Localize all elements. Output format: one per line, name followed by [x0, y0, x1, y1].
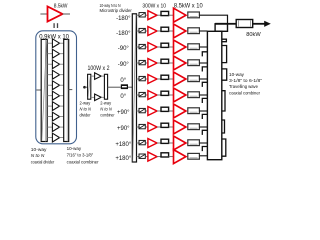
wire: row 5 divider tap	[137, 78, 140, 80]
wire: row 6 to combiner	[199, 94, 207, 96]
wire	[157, 94, 161, 96]
wire: row 1 to combiner top	[199, 15, 227, 24]
wire	[169, 30, 174, 32]
op-amp: 0.9kW module #10	[52, 133, 59, 142]
op-amp: 0.9kW module #6	[52, 91, 59, 100]
wire	[169, 94, 174, 96]
svg-text:coaxial combiner: coaxial combiner	[229, 90, 260, 95]
wire: box row 8 in	[47, 116, 52, 118]
svg-text:-180°: -180°	[116, 16, 131, 22]
op-amp: 0.9kW module #4	[52, 70, 59, 79]
svg-text:2-way: 2-way	[80, 101, 92, 106]
wire: driver amp input	[40, 13, 47, 15]
op-amp: 100W amplifier	[95, 73, 102, 80]
combiner: step section 6	[222, 139, 226, 156]
op-amp: 0.9kW module #7	[52, 102, 59, 111]
op-amp: 0.9kW module #8	[52, 112, 59, 121]
wire: box row 2 out	[59, 53, 63, 55]
wire: output arrow 80kW	[253, 23, 265, 25]
combiner: step section 2	[222, 46, 227, 63]
wire: row 5 to combiner	[199, 78, 207, 80]
wire	[145, 94, 148, 96]
connector: row 8 phase trim	[139, 124, 145, 128]
svg-text:N to N: N to N	[80, 106, 92, 111]
combiner: step section 4	[222, 91, 225, 111]
connector: row 6 phase trim	[139, 92, 145, 96]
svg-text:combiner: combiner	[100, 112, 115, 117]
op-amp: 0.9kW module #9	[52, 123, 59, 132]
combiner: left tap stub 2	[202, 67, 207, 72]
op-amp: row 3 300W driver	[148, 43, 157, 52]
connector: row 2 phase trim	[139, 28, 145, 32]
wire: row 7 divider tap	[137, 110, 140, 112]
svg-text:+90°: +90°	[117, 126, 130, 132]
svg-text:0°: 0°	[120, 94, 126, 100]
wire: row 9 divider tap	[137, 142, 140, 144]
combiner: main travelling-wave column	[207, 31, 221, 159]
connector: row 2 output coupler	[188, 28, 200, 34]
wire: box row 1 in	[47, 42, 52, 44]
equivalence marks	[53, 23, 55, 28]
wire: driver amp output	[63, 13, 71, 15]
wire: row 9 to combiner	[199, 142, 207, 144]
wire	[169, 62, 174, 64]
wire	[145, 14, 148, 16]
wire	[157, 126, 161, 128]
wire: box row 5 out	[59, 84, 63, 86]
svg-text:8.5kW: 8.5kW	[54, 4, 68, 10]
combiner: top feed section	[215, 24, 227, 32]
op-amp: row 5 8.5kW final amplifier	[174, 72, 186, 86]
op-amp: row 6 300W driver	[148, 91, 157, 100]
op-amp: row 1 300W driver	[148, 11, 157, 20]
connector: row 5 interstage	[161, 75, 169, 79]
wire	[145, 78, 148, 80]
divider bar: 10-way coaxial divider	[41, 39, 47, 141]
wire	[157, 30, 161, 32]
op-amp: row 7 8.5kW final amplifier	[174, 104, 186, 118]
wire	[169, 126, 174, 128]
wire: module input feed	[36, 89, 41, 91]
op-amp: row 2 300W driver	[148, 27, 157, 36]
wire	[169, 46, 174, 48]
connector: row 9 output coupler	[188, 140, 200, 146]
wire: box row 3 out	[59, 63, 63, 65]
wire	[145, 156, 148, 158]
wire	[157, 78, 161, 80]
connector: row 8 output coupler	[188, 124, 200, 130]
svg-text:100W x 2: 100W x 2	[87, 66, 110, 72]
connector: row 4 interstage	[161, 59, 169, 63]
wire: combiner output bus	[228, 23, 237, 25]
wire: box row 1 out	[59, 42, 63, 44]
connector: row 4 output coupler	[188, 60, 200, 66]
wire: row 4 divider tap	[137, 62, 140, 64]
combiner: left tap stub 4	[202, 98, 207, 103]
combiner: step section 5	[222, 120, 225, 133]
connector: row 3 phase trim	[139, 44, 145, 48]
wire: row 8 divider tap	[137, 126, 140, 128]
op-amp: row 10 300W driver	[148, 152, 157, 161]
wire: 2way row out	[101, 75, 104, 77]
svg-text:300W x 10: 300W x 10	[142, 3, 166, 9]
op-amp: row 4 8.5kW final amplifier	[174, 56, 186, 70]
combiner bar: 2-way N to N combiner	[104, 74, 107, 99]
wire: row 3 to combiner	[199, 46, 207, 48]
combiner: left tap stub 6	[202, 130, 207, 135]
wire	[157, 142, 161, 144]
wire	[145, 30, 148, 32]
wire: 2way row	[91, 75, 95, 77]
wire: box row 3 in	[47, 63, 52, 65]
wire	[145, 46, 148, 48]
connector: row 7 interstage	[161, 107, 169, 111]
op-amp: 0.9kW module #5	[52, 81, 59, 90]
wire: row 1 divider tap	[137, 14, 140, 16]
op-amp: row 8 8.5kW final amplifier	[174, 120, 186, 134]
module box 0.9kW x 10	[36, 31, 77, 144]
combiner: left tap stub 3	[202, 82, 207, 87]
svg-text:10-way: 10-way	[31, 147, 48, 152]
connector: row 9 interstage	[161, 139, 169, 143]
svg-text:coaxial divider: coaxial divider	[31, 159, 55, 164]
connector: row 1 interstage	[161, 11, 169, 15]
svg-text:10-way: 10-way	[67, 146, 82, 151]
wire: 2-way output to microstrip divider	[108, 86, 121, 88]
wire	[169, 156, 174, 158]
svg-text:0°: 0°	[120, 78, 126, 84]
wire: row 7 to combiner	[199, 110, 207, 112]
svg-text:-90°: -90°	[118, 62, 130, 68]
op-amp: 100W amplifier	[95, 94, 102, 101]
wire: box row 9 out	[59, 126, 63, 128]
connector: row 9 phase trim	[139, 140, 145, 144]
op-amp: row 1 8.5kW final amplifier	[174, 8, 186, 22]
op-amp: row 4 300W driver	[148, 59, 157, 68]
svg-text:coaxial combiner: coaxial combiner	[67, 159, 100, 164]
op-amp: 0.9kW module #1	[52, 39, 59, 48]
divider bar: 10-way microstrip divider	[132, 14, 136, 162]
combiner: left tap stub 5	[202, 114, 207, 119]
wire: box row 4 in	[47, 74, 52, 76]
op-amp: 8.5kW driver amplifier symbol	[48, 7, 63, 22]
wire	[157, 62, 161, 64]
connector: row 10 output coupler	[188, 153, 200, 159]
op-amp: 0.9kW module #3	[52, 60, 59, 69]
connector: row 3 output coupler	[188, 44, 200, 50]
connector: row 4 phase trim	[139, 60, 145, 64]
wire	[145, 126, 148, 128]
wire	[157, 46, 161, 48]
wire: box row 7 out	[59, 105, 63, 107]
connector: row 1 output coupler	[188, 12, 200, 18]
combiner: step section 3	[222, 69, 227, 80]
connector: row 7 phase trim	[139, 108, 145, 112]
connector: row 8 interstage	[161, 123, 169, 127]
wire: box row 9 in	[47, 126, 52, 128]
op-amp: row 5 300W driver	[148, 75, 157, 84]
wire: box row 5 in	[47, 84, 52, 86]
svg-text:+90°: +90°	[117, 110, 130, 116]
wire: box row 10 in	[47, 137, 52, 139]
wire: row 10 to combiner	[199, 155, 207, 157]
wire: 2way row	[91, 96, 95, 98]
wire: box row 6 out	[59, 95, 63, 97]
svg-text:N to N: N to N	[100, 106, 112, 111]
wire: row 3 divider tap	[137, 46, 140, 48]
svg-text:Travelling wave: Travelling wave	[229, 84, 258, 89]
svg-text:-180°: -180°	[116, 31, 131, 37]
connector: output directional coupler	[236, 20, 253, 28]
wire: row 2 divider tap	[137, 30, 140, 32]
combiner: step section 1	[222, 39, 227, 42]
wire	[145, 62, 148, 64]
connector: row 1 phase trim	[139, 13, 145, 17]
svg-text:8.5kW x 10: 8.5kW x 10	[174, 3, 203, 9]
wire: box row 8 out	[59, 116, 63, 118]
wire: box row 4 out	[59, 74, 63, 76]
wire	[157, 156, 161, 158]
svg-text:+180°: +180°	[115, 142, 132, 148]
wire: module output stub	[69, 89, 73, 91]
op-amp: row 10 8.5kW final amplifier	[174, 150, 186, 164]
wire	[128, 86, 132, 88]
svg-text:7/16” to 3-1/8”: 7/16” to 3-1/8”	[67, 152, 94, 157]
connector: row 2 interstage	[161, 27, 169, 31]
wire: 2way row out	[101, 96, 104, 98]
connector: row 6 interstage	[161, 91, 169, 95]
svg-text:divider: divider	[80, 112, 91, 117]
wire	[145, 110, 148, 112]
divider bar: 2-way N to N divider	[88, 74, 91, 99]
wire	[169, 110, 174, 112]
connector: row 10 interstage	[161, 153, 169, 157]
svg-text:80kW: 80kW	[246, 32, 261, 38]
op-amp: 0.9kW module #2	[52, 49, 59, 58]
wire	[169, 14, 174, 16]
connector: row 10 phase trim	[139, 154, 145, 158]
connector: row 5 phase trim	[139, 76, 145, 80]
wire	[145, 142, 148, 144]
svg-text:3-1/8” to 6-1/8”: 3-1/8” to 6-1/8”	[229, 78, 263, 83]
connector: divider input	[121, 84, 128, 89]
combiner: left tap stub 7	[202, 147, 207, 152]
connector: row 7 output coupler	[188, 108, 200, 114]
wire: row 10 divider tap	[137, 156, 140, 158]
svg-text:10-way: 10-way	[229, 72, 245, 77]
wire: row 4 to combiner	[199, 62, 207, 64]
combiner: left tap stub 1	[202, 52, 207, 57]
svg-text:N to N: N to N	[31, 153, 45, 158]
op-amp: row 2 8.5kW final amplifier	[174, 24, 186, 38]
wire	[169, 142, 174, 144]
node: junction dot	[83, 86, 86, 89]
connector: row 3 interstage	[161, 43, 169, 47]
svg-text:Microstrip divider: Microstrip divider	[100, 8, 133, 13]
wire	[157, 14, 161, 16]
wire: 2-way input	[85, 86, 88, 88]
wire: box row 2 in	[47, 53, 52, 55]
wire: row 6 divider tap	[137, 94, 140, 96]
svg-text:-90°: -90°	[118, 46, 130, 52]
wire: box row 6 in	[47, 95, 52, 97]
op-amp: row 3 8.5kW final amplifier	[174, 40, 186, 54]
op-amp: row 9 300W driver	[148, 139, 157, 148]
connector: row 6 output coupler	[188, 92, 200, 98]
wire: box row 7 in	[47, 105, 52, 107]
op-amp: row 7 300W driver	[148, 107, 157, 116]
wire	[169, 78, 174, 80]
wire	[157, 110, 161, 112]
wire: row 8 to combiner	[199, 126, 207, 128]
svg-text:2-way: 2-way	[100, 101, 112, 106]
connector: row 5 output coupler	[188, 76, 200, 82]
op-amp: row 9 8.5kW final amplifier	[174, 136, 186, 150]
wire: box row 10 out	[59, 137, 63, 139]
combiner bar: 10-way coaxial combiner	[64, 39, 69, 141]
svg-text:+180°: +180°	[115, 156, 132, 162]
op-amp: row 6 8.5kW final amplifier	[174, 88, 186, 102]
wire: row 2 to combiner	[199, 30, 207, 32]
op-amp: row 8 300W driver	[148, 123, 157, 132]
